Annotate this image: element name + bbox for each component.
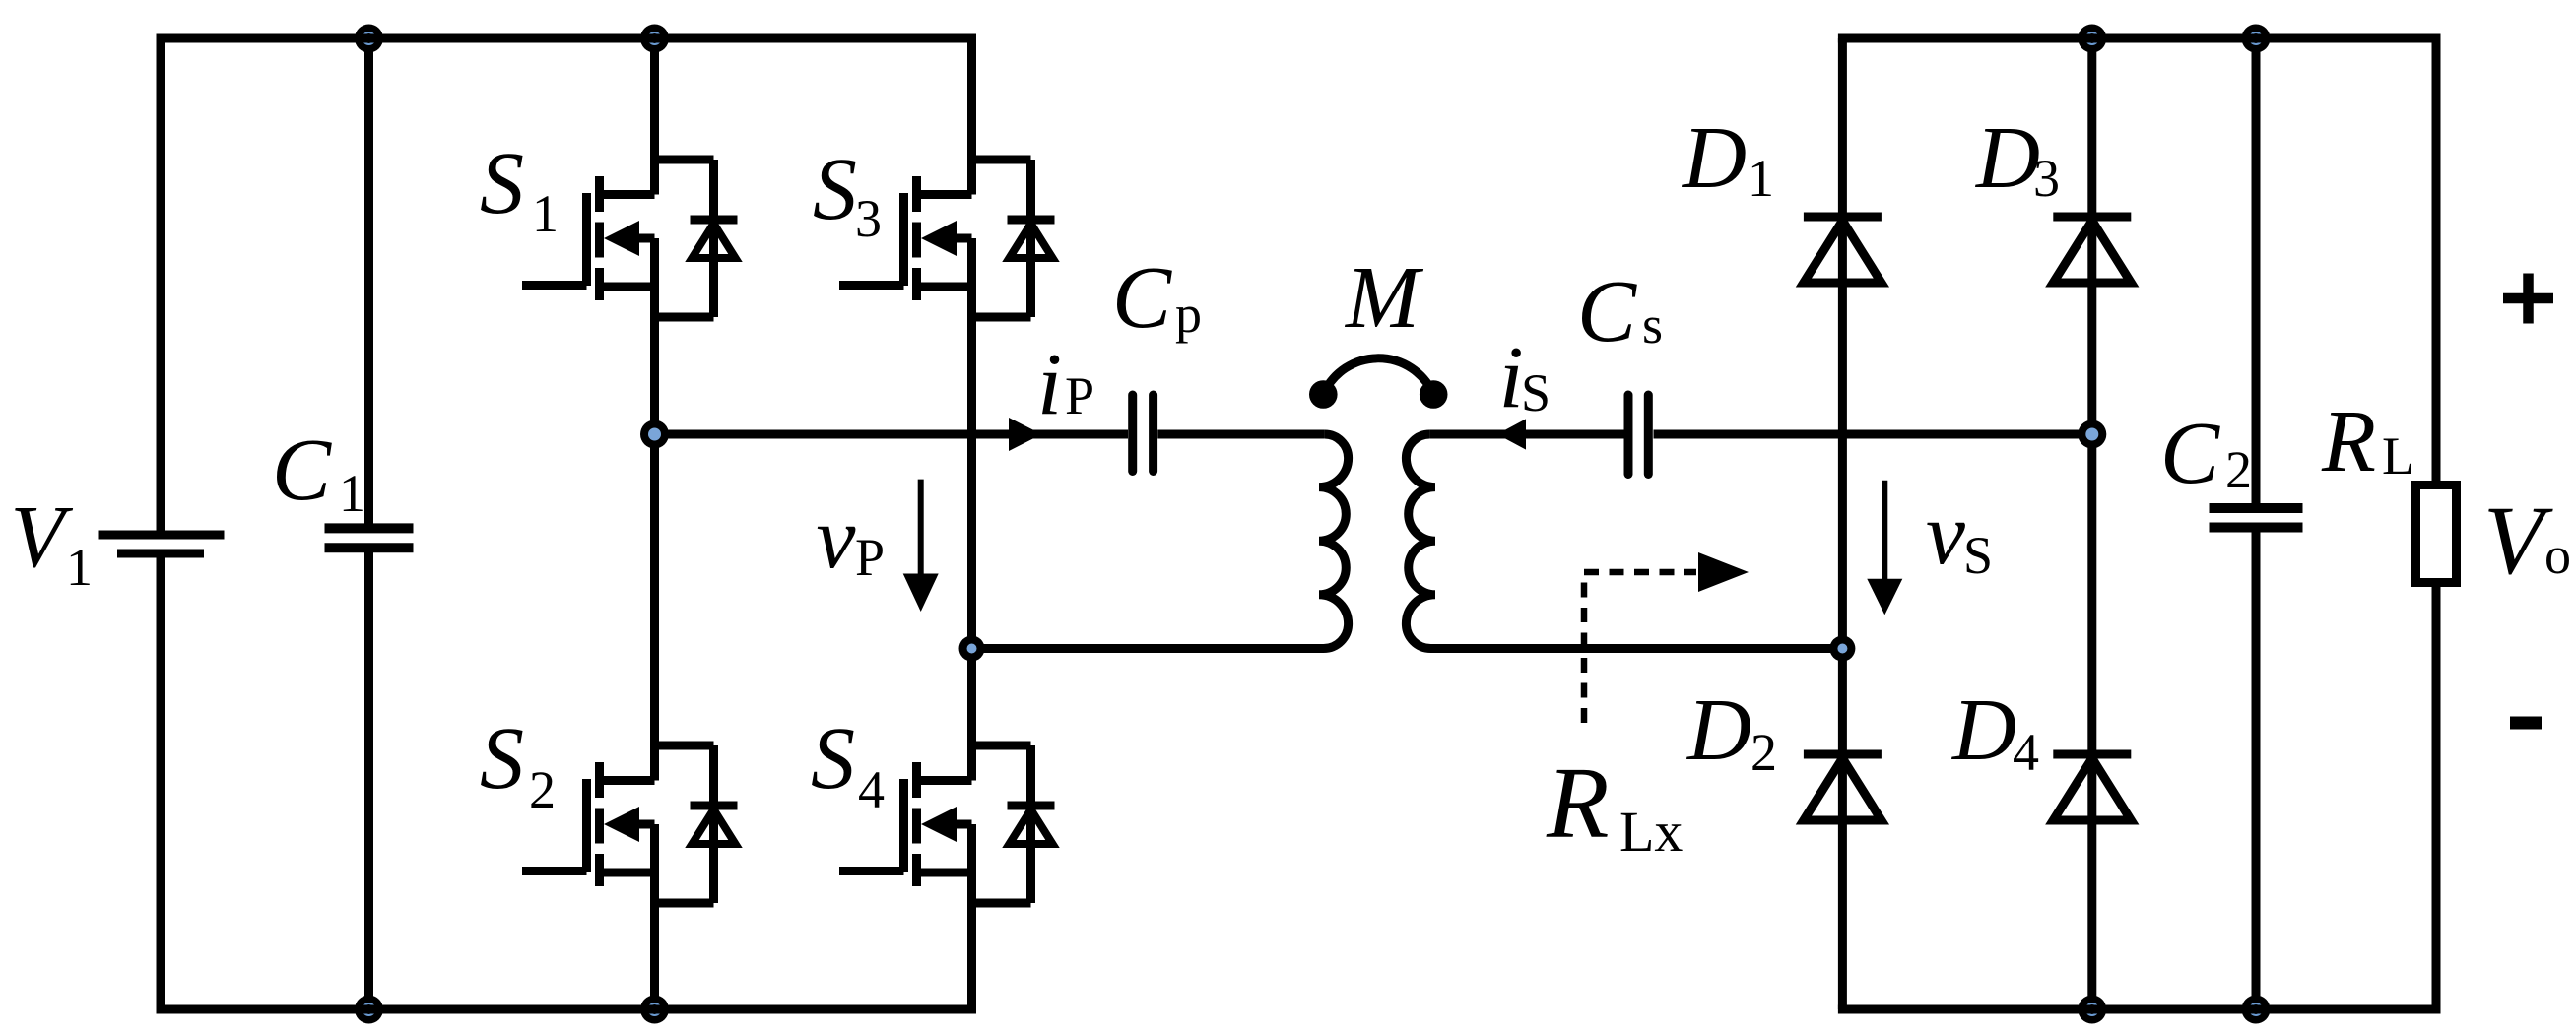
svg-text:S: S xyxy=(1963,526,1993,585)
capacitor Cp xyxy=(1133,395,1154,472)
svg-text:L: L xyxy=(2382,426,2414,485)
node S1-S2 midpoint xyxy=(640,420,669,449)
wire V1 left leg upper xyxy=(157,38,165,535)
node D1-D2 midpoint xyxy=(1829,636,1855,662)
wire Lp bottom to S3-S4 midpoint xyxy=(972,644,1324,653)
wire top-right rail xyxy=(1842,34,2436,43)
node top rail at C2 xyxy=(2241,25,2272,53)
svg-text:1: 1 xyxy=(339,464,365,523)
node top rail at S1 leg xyxy=(639,25,670,53)
arrow vP xyxy=(903,480,939,612)
resistor RL xyxy=(2416,485,2457,583)
diode D3 xyxy=(2053,217,2131,283)
wire C2 leg upper xyxy=(2252,38,2261,508)
wire Cs to D3-D4 midpoint xyxy=(1654,430,2092,439)
svg-text:1: 1 xyxy=(1748,149,1774,208)
wire S1-S2 leg segment b xyxy=(650,238,659,781)
node bottom rail at S2 leg xyxy=(639,996,670,1024)
node top rail at C1 xyxy=(354,25,384,53)
dashed arrow RLx xyxy=(1584,552,1749,723)
capacitor C2 xyxy=(2210,508,2303,528)
diode D4 xyxy=(2053,754,2131,820)
node top rail at D3 leg xyxy=(2077,25,2107,53)
wire C1 leg lower xyxy=(364,548,373,1009)
svg-text:S: S xyxy=(813,141,857,238)
svg-text:S: S xyxy=(1521,363,1551,422)
mutual coupling M arc xyxy=(1323,358,1433,395)
diode D1 xyxy=(1804,217,1882,283)
svg-text:V: V xyxy=(11,488,74,586)
svg-text:2: 2 xyxy=(529,760,556,819)
wire C1 leg upper xyxy=(364,38,373,528)
svg-text:S: S xyxy=(811,710,855,808)
svg-text:D: D xyxy=(1974,109,2040,207)
arrow iP xyxy=(1009,418,1042,451)
svg-text:v: v xyxy=(817,489,856,587)
node bottom rail at C1 xyxy=(354,996,384,1024)
svg-text:o: o xyxy=(2544,526,2571,585)
mutual coupling dot right xyxy=(1420,380,1448,409)
svg-text:s: s xyxy=(1642,295,1663,355)
wire S3-S4 leg segment b xyxy=(967,238,976,781)
node S3-S4 midpoint xyxy=(959,636,985,662)
battery V1 xyxy=(99,535,225,553)
svg-text:3: 3 xyxy=(855,189,882,248)
transistor S2 xyxy=(522,745,738,903)
node bottom rail at C2 xyxy=(2241,996,2272,1024)
wire RL leg upper xyxy=(2432,38,2441,485)
svg-text:D: D xyxy=(1685,681,1751,779)
svg-text:3: 3 xyxy=(2033,149,2060,208)
svg-text:P: P xyxy=(855,528,885,587)
svg-text:S: S xyxy=(480,135,524,232)
wire top-left rail xyxy=(161,34,972,43)
svg-text:D: D xyxy=(1950,681,2016,779)
wire bottom-left rail xyxy=(161,1005,972,1014)
transistor S1 xyxy=(522,160,738,317)
transistor S3 xyxy=(839,160,1055,317)
svg-text:R: R xyxy=(1546,746,1610,860)
svg-text:C: C xyxy=(1577,263,1637,360)
mutual coupling dot left xyxy=(1309,380,1338,409)
arrow iS xyxy=(1497,419,1526,449)
wire V1 left leg lower xyxy=(157,553,165,1009)
svg-text:R: R xyxy=(2321,393,2376,490)
svg-text:i: i xyxy=(1499,329,1524,426)
inductor LP coil xyxy=(1319,434,1349,649)
wire C2 leg lower xyxy=(2252,528,2261,1010)
svg-text:1: 1 xyxy=(66,538,93,597)
svg-text:V: V xyxy=(2483,485,2553,595)
svg-text:C: C xyxy=(272,421,332,519)
wire Cp to Lp xyxy=(1157,430,1324,439)
svg-text:C: C xyxy=(2160,405,2220,502)
svg-text:p: p xyxy=(1175,285,1202,344)
wire S3-S4 leg segment a xyxy=(967,38,976,195)
svg-text:4: 4 xyxy=(858,760,885,819)
wire S1-S2 leg segment c xyxy=(650,824,659,1009)
diode D2 xyxy=(1804,754,1882,820)
wire Ls top to Cs xyxy=(1429,430,1623,439)
wire Ls bottom to D1-D2 midpoint xyxy=(1431,644,1843,653)
svg-text:S: S xyxy=(480,710,524,808)
svg-text:i: i xyxy=(1037,336,1062,433)
svg-text:P: P xyxy=(1065,366,1094,425)
svg-text:D: D xyxy=(1681,109,1747,207)
svg-text:1: 1 xyxy=(532,184,559,243)
plus sign xyxy=(2503,274,2553,324)
svg-text:v: v xyxy=(1926,485,1965,583)
wire S1-S2 leg segment a xyxy=(650,38,659,195)
inductor LS coil xyxy=(1406,434,1435,649)
node bottom rail at D4 leg xyxy=(2077,996,2107,1024)
capacitor Cs xyxy=(1628,395,1648,475)
wire primary mid from S1-S2 midpoint to Cp xyxy=(655,430,1129,439)
svg-text:2: 2 xyxy=(2225,440,2252,499)
node D3-D4 midpoint xyxy=(2078,420,2106,449)
svg-text:C: C xyxy=(1112,249,1172,347)
transistor S4 xyxy=(839,745,1055,903)
wire bottom-right rail xyxy=(1842,1005,2436,1014)
wire D1-D2 leg xyxy=(1838,38,1847,1009)
svg-text:Lx: Lx xyxy=(1619,800,1683,864)
wire D3-D4 leg xyxy=(2087,38,2096,1009)
minus sign xyxy=(2510,717,2542,730)
wire S3-S4 leg segment c xyxy=(967,824,976,1009)
svg-text:2: 2 xyxy=(1750,723,1777,782)
wire RL leg lower xyxy=(2432,583,2441,1010)
svg-text:4: 4 xyxy=(2013,723,2039,782)
svg-text:M: M xyxy=(1344,249,1424,347)
capacitor C1 xyxy=(325,528,414,548)
arrow vS xyxy=(1867,481,1902,615)
